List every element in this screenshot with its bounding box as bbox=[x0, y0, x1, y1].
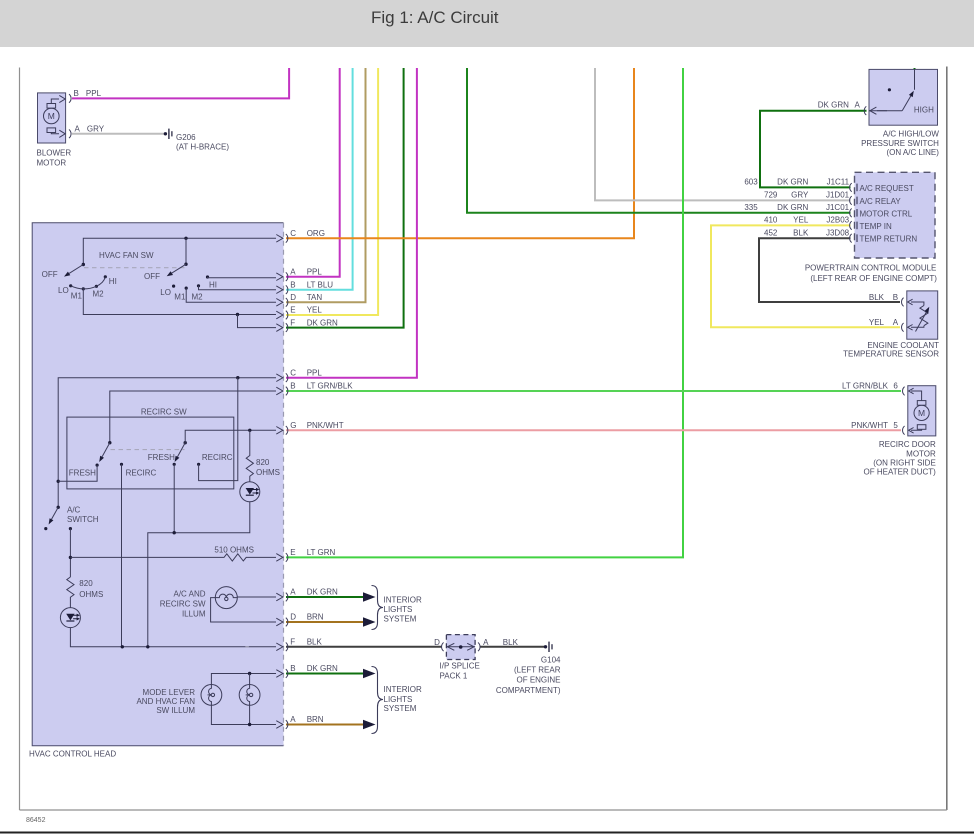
pcm pin TEMP RETURN bbox=[850, 234, 852, 243]
wire BRN pin D interior lights bbox=[286, 621, 364, 623]
wire branch to pin F bbox=[238, 315, 277, 328]
wire LT GRN pin E to top bbox=[286, 68, 683, 557]
pcm pin A/C RELAY bbox=[850, 196, 852, 205]
svg-text:DK GRN: DK GRN bbox=[818, 101, 849, 110]
resistor 820 ohms right bbox=[246, 430, 253, 481]
splice pack connector arcs bbox=[442, 643, 444, 652]
recirc motor pin arcs bbox=[903, 387, 905, 396]
wire a/c contact down bbox=[69, 529, 71, 577]
svg-text:PRESSURE SWITCH: PRESSURE SWITCH bbox=[861, 139, 939, 148]
svg-text:A: A bbox=[75, 125, 81, 134]
pressure switch common wire bbox=[869, 110, 902, 112]
svg-text:LIGHTS: LIGHTS bbox=[384, 695, 413, 704]
wire right recirc contact loop to C2 line bbox=[199, 378, 238, 481]
svg-text:FRESH: FRESH bbox=[148, 453, 175, 462]
svg-text:YEL: YEL bbox=[793, 216, 809, 225]
svg-text:D: D bbox=[434, 638, 440, 647]
svg-text:DK GRN: DK GRN bbox=[777, 203, 808, 212]
hvac pin E arrow and arc bbox=[276, 311, 288, 320]
wire right fan M1 to pin D bbox=[186, 288, 276, 302]
svg-text:OFF: OFF bbox=[42, 270, 58, 279]
svg-text:820: 820 bbox=[79, 579, 93, 588]
blower pin A connector arc bbox=[69, 130, 71, 139]
sensor thermistor zigzag bbox=[920, 306, 928, 326]
recirc motor internal wires bbox=[911, 391, 922, 430]
recirc sw inner box bbox=[67, 417, 234, 489]
svg-text:OFF: OFF bbox=[144, 272, 160, 281]
wire LED right bottom loop bbox=[148, 502, 250, 647]
sensor internal wire B bbox=[911, 302, 924, 306]
svg-text:OF HEATER DUCT): OF HEATER DUCT) bbox=[864, 468, 937, 477]
svg-text:J2B03: J2B03 bbox=[826, 216, 849, 225]
resistor 820 ohms left bbox=[67, 577, 74, 608]
wire BLK pin F to splice pack bbox=[286, 646, 442, 648]
svg-text:DK GRN: DK GRN bbox=[307, 588, 338, 597]
brace interior lights 2 bbox=[372, 667, 384, 734]
svg-text:B: B bbox=[74, 89, 79, 98]
svg-text:HVAC FAN SW: HVAC FAN SW bbox=[99, 251, 154, 260]
wire left fresh contact to acsw feed bbox=[58, 465, 97, 481]
splice pack center node bbox=[459, 645, 463, 649]
wire left recirc contact down to blk line bbox=[121, 464, 123, 647]
A/C switch contacts bbox=[44, 527, 47, 530]
svg-text:TAN: TAN bbox=[307, 293, 323, 302]
wire BLK 452 temp return loop bbox=[759, 238, 900, 302]
svg-text:A/C AND: A/C AND bbox=[173, 590, 205, 599]
wire ORG pin C to top bbox=[286, 68, 634, 238]
svg-text:YEL: YEL bbox=[869, 318, 885, 327]
svg-text:J1C01: J1C01 bbox=[826, 203, 850, 212]
wire left fan M1 to pin E bbox=[83, 289, 276, 315]
svg-text:G206: G206 bbox=[176, 133, 196, 142]
svg-text:GRY: GRY bbox=[791, 191, 809, 200]
svg-text:LT GRN: LT GRN bbox=[307, 548, 336, 557]
svg-text:LT GRN/BLK: LT GRN/BLK bbox=[307, 382, 354, 391]
svg-text:M2: M2 bbox=[192, 292, 204, 301]
frame bottom border bbox=[20, 809, 947, 811]
svg-text:B: B bbox=[290, 280, 295, 289]
blower motor M symbol bbox=[44, 108, 60, 124]
arrow BRN D bbox=[363, 617, 376, 627]
blower motor pin arrows bbox=[59, 95, 65, 102]
arrow DK GRN A bbox=[363, 592, 376, 602]
svg-text:E: E bbox=[290, 548, 295, 557]
recirc motor M symbol bbox=[914, 405, 929, 420]
hvac control head box bbox=[32, 223, 283, 746]
svg-text:PNK/WHT: PNK/WHT bbox=[851, 421, 888, 430]
svg-text:PPL: PPL bbox=[307, 267, 323, 276]
node blk junctions bbox=[121, 645, 124, 648]
hvac pin F3 arrow and arc bbox=[276, 643, 288, 652]
svg-text:PPL: PPL bbox=[307, 368, 323, 377]
svg-text:INTERIOR: INTERIOR bbox=[384, 596, 422, 605]
svg-text:BRN: BRN bbox=[307, 613, 324, 622]
svg-text:G: G bbox=[290, 421, 296, 430]
sensor internal wire A bbox=[911, 326, 924, 328]
svg-text:E: E bbox=[290, 306, 295, 315]
pressure switch pin arrow bbox=[870, 107, 877, 114]
svg-text:D: D bbox=[290, 613, 296, 622]
wire YEL pin E vertical bbox=[286, 68, 378, 315]
wire LT GRN/BLK to recirc door motor bbox=[286, 390, 901, 392]
hvac pin A3 arrow and arc bbox=[276, 593, 288, 602]
wire DK GRN pin A interior lights bbox=[286, 596, 364, 598]
svg-text:A: A bbox=[855, 101, 861, 110]
hvac pin F arrow and arc bbox=[276, 323, 288, 332]
A/C switch arm bbox=[52, 507, 59, 519]
svg-text:TEMP IN: TEMP IN bbox=[860, 222, 893, 231]
powertrain control module box bbox=[855, 172, 936, 258]
wire DK GRN pin F vertical bbox=[286, 68, 404, 328]
svg-text:BLK: BLK bbox=[869, 293, 885, 302]
svg-text:A: A bbox=[290, 715, 296, 724]
svg-text:PNK/WHT: PNK/WHT bbox=[307, 421, 344, 430]
hvac pin A arrow and arc bbox=[276, 272, 288, 281]
svg-text:(LEFT REAR OF ENGINE COMPT): (LEFT REAR OF ENGINE COMPT) bbox=[810, 274, 937, 283]
ground G206 bbox=[164, 132, 167, 135]
svg-text:ENGINE COOLANT: ENGINE COOLANT bbox=[867, 341, 939, 350]
svg-text:C: C bbox=[290, 229, 296, 238]
frame right border bbox=[946, 67, 948, 811]
svg-text:RECIRC SW: RECIRC SW bbox=[160, 600, 206, 609]
svg-text:F: F bbox=[290, 638, 295, 647]
svg-text:RECIRC DOOR: RECIRC DOOR bbox=[879, 440, 936, 449]
svg-text:BLOWER: BLOWER bbox=[37, 149, 72, 158]
wire right fresh contact down bbox=[173, 464, 175, 532]
svg-text:LT BLU: LT BLU bbox=[307, 280, 334, 289]
sensor thermistor arrow bbox=[916, 312, 927, 332]
svg-text:Fig 1: A/C Circuit: Fig 1: A/C Circuit bbox=[371, 8, 499, 27]
wire mode lamps top to pin B bbox=[211, 674, 276, 685]
svg-text:AND HVAC FAN: AND HVAC FAN bbox=[136, 697, 195, 706]
svg-text:HI: HI bbox=[209, 280, 217, 289]
lamp mode lever 2 bbox=[239, 685, 260, 706]
wire mode lamps bottom to pin A bbox=[211, 705, 276, 724]
svg-text:COMPARTMENT): COMPARTMENT) bbox=[496, 686, 561, 695]
svg-text:D: D bbox=[290, 293, 296, 302]
node right fresh join bbox=[173, 531, 176, 534]
arrow DK GRN B bbox=[363, 669, 376, 679]
svg-text:MOTOR: MOTOR bbox=[37, 159, 67, 168]
svg-text:BRN: BRN bbox=[307, 715, 324, 724]
svg-text:J3D08: J3D08 bbox=[826, 228, 850, 237]
svg-text:RECIRC: RECIRC bbox=[126, 468, 157, 477]
left recirc contacts bbox=[96, 464, 99, 467]
frame left border bbox=[19, 68, 21, 811]
brace interior lights 1 bbox=[372, 586, 384, 630]
svg-text:SYSTEM: SYSTEM bbox=[384, 615, 417, 624]
blower pin B connector arc bbox=[69, 94, 71, 103]
wire DK GRN top stub into pressure switch bbox=[914, 68, 916, 70]
svg-text:SWITCH: SWITCH bbox=[67, 515, 99, 524]
hvac pin B arrow and arc bbox=[276, 285, 288, 294]
wire LED left to blk line bbox=[70, 628, 276, 647]
splice pack internal wire bbox=[446, 646, 475, 648]
svg-text:M1: M1 bbox=[174, 292, 186, 301]
svg-text:F: F bbox=[290, 318, 295, 327]
wire lamp right to pin A bbox=[237, 596, 276, 598]
wire pin C2 PPL internal run bbox=[58, 378, 276, 508]
recirc door motor box bbox=[908, 386, 936, 436]
svg-text:OHMS: OHMS bbox=[79, 590, 103, 599]
svg-text:YEL: YEL bbox=[307, 306, 323, 315]
hvac pin E3 arrow and arc bbox=[276, 553, 288, 562]
node fresh/acsw junction bbox=[57, 480, 60, 483]
wire PPL pin A vertical bbox=[286, 68, 340, 277]
svg-text:B: B bbox=[290, 382, 295, 391]
fan switch linkage dashed bbox=[84, 267, 185, 269]
wire PPL blower B to top edge bbox=[72, 68, 289, 98]
A/C switch riser arrowhead bbox=[57, 506, 60, 509]
wire DK GRN pin B interior lights bbox=[286, 673, 364, 675]
hvac pin B2 arrow and arc bbox=[276, 387, 288, 396]
svg-text:A/C: A/C bbox=[67, 506, 81, 515]
wire YEL 410 temp in loop bbox=[711, 225, 900, 327]
svg-text:J1C11: J1C11 bbox=[827, 178, 850, 187]
svg-text:A: A bbox=[893, 318, 899, 327]
svg-text:BLK: BLK bbox=[793, 228, 809, 237]
wire DK GRN 335 motor ctrl bbox=[467, 68, 851, 213]
svg-text:(ON A/C LINE): (ON A/C LINE) bbox=[886, 148, 939, 157]
hvac pin C2 arrow and arc bbox=[276, 373, 288, 382]
wire PNK/WHT to recirc door motor bbox=[286, 429, 901, 431]
svg-text:MOTOR: MOTOR bbox=[906, 450, 936, 459]
a/c high/low pressure switch box bbox=[869, 69, 938, 125]
hvac pin B3 arrow and arc bbox=[276, 669, 288, 678]
svg-text:TEMP RETURN: TEMP RETURN bbox=[860, 235, 918, 244]
i/p splice pack box bbox=[446, 635, 475, 660]
hvac pin G arrow and arc bbox=[276, 426, 288, 435]
lamp mode lever 1 bbox=[201, 685, 222, 706]
wire fan feed to pin C bbox=[83, 238, 276, 264]
svg-text:86452: 86452 bbox=[26, 817, 46, 824]
svg-text:LO: LO bbox=[58, 286, 69, 295]
hvac pin A4 arrow and arc bbox=[276, 720, 288, 729]
svg-text:ILLUM: ILLUM bbox=[182, 609, 206, 618]
svg-text:A/C REQUEST: A/C REQUEST bbox=[860, 184, 914, 193]
wire PPL pin C2 vertical bbox=[286, 68, 417, 378]
svg-text:LT GRN/BLK: LT GRN/BLK bbox=[842, 382, 889, 391]
svg-text:SW ILLUM: SW ILLUM bbox=[156, 706, 195, 715]
svg-text:BLK: BLK bbox=[503, 638, 519, 647]
wire right recirc pivot to pin G bbox=[185, 430, 276, 442]
node fan feed junction bbox=[184, 237, 187, 240]
svg-text:G104: G104 bbox=[541, 656, 561, 665]
svg-text:(LEFT REAR: (LEFT REAR bbox=[514, 666, 561, 675]
svg-text:820: 820 bbox=[256, 458, 270, 467]
pcm pin MOTOR CTRL bbox=[850, 209, 852, 218]
svg-text:BLK: BLK bbox=[307, 638, 323, 647]
svg-text:PPL: PPL bbox=[86, 89, 102, 98]
svg-text:A/C RELAY: A/C RELAY bbox=[860, 197, 902, 206]
node E/F junction bbox=[236, 313, 239, 316]
wire GRY 729 a/c relay bbox=[595, 68, 851, 200]
node 510 junction bbox=[69, 556, 72, 559]
svg-text:J1D01: J1D01 bbox=[826, 191, 850, 200]
wire right fan M2 to pin B bbox=[199, 286, 277, 290]
svg-text:A/C HIGH/LOW: A/C HIGH/LOW bbox=[883, 129, 939, 138]
sensor pin arcs bbox=[902, 298, 904, 307]
pcm pin TEMP IN bbox=[850, 221, 852, 230]
left fan switch wiper track bbox=[71, 277, 106, 289]
svg-text:B: B bbox=[893, 293, 898, 302]
svg-text:POWERTRAIN CONTROL MODULE: POWERTRAIN CONTROL MODULE bbox=[805, 263, 937, 272]
wire TAN pin D vertical bbox=[286, 68, 366, 302]
wire GRY blower A to ground G206 bbox=[72, 133, 165, 135]
pressure switch arm bbox=[902, 96, 911, 111]
title bar bbox=[0, 0, 974, 47]
svg-text:DK GRN: DK GRN bbox=[307, 664, 338, 673]
arrow BRN A bbox=[363, 720, 376, 730]
wire lamp left to pin D bbox=[211, 598, 276, 622]
svg-text:M1: M1 bbox=[71, 292, 83, 301]
svg-text:M: M bbox=[48, 111, 55, 121]
left fan switch contacts bbox=[69, 284, 72, 287]
svg-text:6: 6 bbox=[893, 382, 898, 391]
bottom black rule bbox=[0, 832, 974, 834]
wire right fan HI to pin A bbox=[208, 276, 277, 279]
left fan switch arm bbox=[82, 263, 85, 266]
svg-text:MOTOR CTRL: MOTOR CTRL bbox=[860, 209, 913, 218]
svg-text:LO: LO bbox=[160, 288, 171, 297]
svg-text:729: 729 bbox=[764, 191, 778, 200]
blower motor internal wires bbox=[51, 99, 59, 134]
hvac control head dashed connector edge bbox=[283, 223, 285, 746]
svg-text:410: 410 bbox=[764, 216, 778, 225]
left recirc switch arm bbox=[108, 441, 111, 444]
svg-text:335: 335 bbox=[744, 203, 758, 212]
svg-text:510 OHMS: 510 OHMS bbox=[214, 545, 254, 554]
right recirc contacts bbox=[173, 463, 176, 466]
right fan switch contacts bbox=[172, 285, 175, 288]
svg-text:HI: HI bbox=[109, 277, 117, 286]
svg-text:C: C bbox=[290, 368, 296, 377]
svg-text:(ON RIGHT SIDE: (ON RIGHT SIDE bbox=[873, 459, 936, 468]
svg-text:452: 452 bbox=[764, 228, 778, 237]
wire DK GRN 603 pressure switch to PCM bbox=[760, 111, 867, 188]
wire LT BLU pin B vertical bbox=[286, 68, 353, 290]
svg-text:DK GRN: DK GRN bbox=[777, 178, 808, 187]
svg-text:SYSTEM: SYSTEM bbox=[384, 704, 417, 713]
node recirc branch on C2 line bbox=[236, 376, 239, 379]
wire right fan pivot riser bbox=[185, 238, 187, 264]
svg-text:PACK 1: PACK 1 bbox=[440, 671, 468, 680]
hvac pin C arrow and arc bbox=[276, 234, 288, 243]
svg-text:M2: M2 bbox=[93, 289, 105, 298]
right recirc switch arm bbox=[184, 441, 187, 444]
node 820 ohms branch bbox=[248, 429, 251, 432]
svg-text:ORG: ORG bbox=[307, 229, 325, 238]
svg-text:M: M bbox=[918, 408, 925, 418]
right fan switch arm bbox=[184, 263, 187, 266]
svg-text:I/P SPLICE: I/P SPLICE bbox=[440, 662, 480, 671]
svg-text:LIGHTS: LIGHTS bbox=[384, 605, 413, 614]
lamp a/c and recirc sw illum bbox=[215, 587, 237, 609]
pressure switch pin arc bbox=[864, 106, 866, 115]
svg-text:5: 5 bbox=[893, 421, 898, 430]
svg-text:OF ENGINE: OF ENGINE bbox=[516, 676, 560, 685]
LED right bbox=[240, 482, 260, 502]
pressure switch low contact bbox=[888, 88, 891, 91]
svg-text:RECIRC SW: RECIRC SW bbox=[141, 408, 187, 417]
svg-text:A: A bbox=[290, 267, 296, 276]
blower motor box bbox=[38, 93, 66, 143]
svg-text:OHMS: OHMS bbox=[256, 468, 280, 477]
svg-text:A: A bbox=[483, 638, 489, 647]
pressure switch internal wire from top bbox=[914, 69, 916, 89]
pcm pin A/C REQUEST bbox=[850, 183, 852, 192]
wire BRN pin A interior lights bbox=[286, 724, 364, 726]
engine coolant temperature sensor box bbox=[907, 291, 938, 339]
svg-text:HVAC CONTROL HEAD: HVAC CONTROL HEAD bbox=[29, 750, 116, 759]
hvac pin D arrow and arc bbox=[276, 298, 288, 307]
svg-text:RECIRC: RECIRC bbox=[202, 453, 233, 462]
wire BLK splice to G104 bbox=[480, 646, 545, 648]
svg-text:603: 603 bbox=[744, 178, 758, 187]
svg-text:DK GRN: DK GRN bbox=[307, 318, 338, 327]
svg-text:(AT H-BRACE): (AT H-BRACE) bbox=[176, 143, 229, 152]
svg-text:MODE LEVER: MODE LEVER bbox=[143, 688, 196, 697]
recirc linkage dashed bbox=[111, 449, 185, 451]
svg-text:A: A bbox=[290, 588, 296, 597]
svg-text:HIGH: HIGH bbox=[914, 106, 934, 115]
svg-text:GRY: GRY bbox=[87, 125, 105, 134]
svg-text:INTERIOR: INTERIOR bbox=[384, 685, 422, 694]
svg-text:TEMPERATURE SENSOR: TEMPERATURE SENSOR bbox=[843, 350, 939, 359]
resistor 510 ohms line bbox=[70, 554, 276, 561]
svg-text:FRESH: FRESH bbox=[69, 468, 96, 477]
wire pin B2 internal run bbox=[110, 391, 276, 443]
svg-text:B: B bbox=[290, 664, 295, 673]
LED left bbox=[60, 608, 80, 628]
ground G104 bbox=[544, 645, 547, 648]
hvac pin D3 arrow and arc bbox=[276, 618, 288, 627]
